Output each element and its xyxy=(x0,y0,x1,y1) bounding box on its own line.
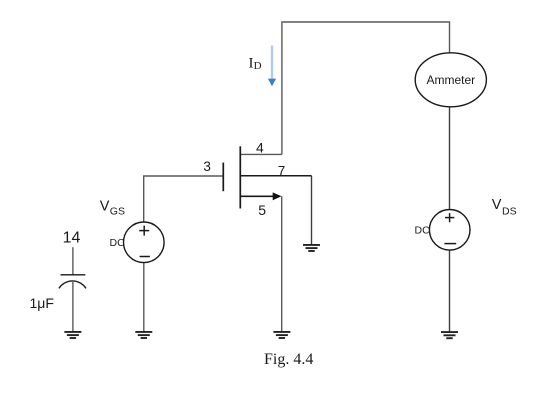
svg-text:GS: GS xyxy=(110,206,125,218)
svg-text:DC: DC xyxy=(110,237,126,249)
svg-text:14: 14 xyxy=(63,229,81,246)
svg-text:V: V xyxy=(492,197,502,213)
svg-text:Ammeter: Ammeter xyxy=(426,73,475,87)
svg-text:DS: DS xyxy=(502,205,517,217)
svg-text:3: 3 xyxy=(203,159,211,174)
svg-text:1μF: 1μF xyxy=(30,295,54,311)
svg-text:5: 5 xyxy=(258,202,266,218)
svg-text:7: 7 xyxy=(278,163,286,178)
svg-text:4: 4 xyxy=(256,140,264,156)
svg-text:Fig. 4.4: Fig. 4.4 xyxy=(264,351,313,368)
svg-text:V: V xyxy=(100,198,110,214)
svg-text:D: D xyxy=(254,60,262,72)
svg-text:DC: DC xyxy=(415,225,431,237)
